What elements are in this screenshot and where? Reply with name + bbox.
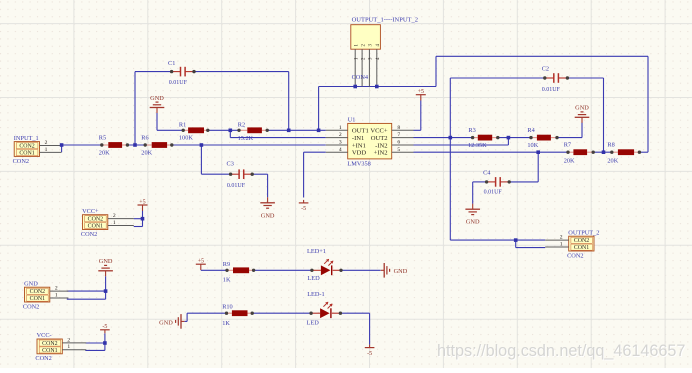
- svg-text:CON2: CON2: [574, 238, 589, 244]
- svg-text:VCC+: VCC+: [82, 208, 99, 215]
- svg-text:CON2: CON2: [42, 341, 57, 347]
- svg-text:GND: GND: [99, 258, 113, 265]
- svg-text:R2: R2: [238, 121, 245, 128]
- resistor R2: [237, 121, 269, 141]
- svg-text:VDD: VDD: [352, 150, 367, 157]
- svg-text:1: 1: [67, 344, 70, 350]
- svg-text:2: 2: [67, 337, 70, 343]
- resistor R9: [223, 261, 256, 284]
- wire +5 to R9: [201, 269, 227, 271]
- svg-text:GND: GND: [24, 280, 38, 287]
- wire R7 to R8: [593, 151, 612, 153]
- capacitor C3: [227, 161, 254, 190]
- wire R1 to R2: [208, 129, 239, 131]
- resistor R4: [527, 127, 558, 149]
- power -5 below VDD: [299, 200, 309, 212]
- wire OUT2 to R3: [414, 137, 473, 139]
- capacitor C4: [483, 170, 511, 196]
- svg-text:U1: U1: [348, 116, 356, 123]
- svg-text:15.2K: 15.2K: [238, 135, 254, 142]
- svg-text:0.01UF: 0.01UF: [542, 87, 561, 93]
- svg-text:CON1: CON1: [88, 224, 103, 230]
- connector GND: [23, 280, 69, 310]
- svg-text:CON2: CON2: [23, 303, 39, 310]
- svg-text:2: 2: [339, 132, 342, 138]
- wire C1 right drop: [288, 72, 290, 131]
- power -5 at VCC-: [100, 324, 110, 333]
- svg-text:20K: 20K: [141, 150, 152, 157]
- resistor R5: [99, 134, 129, 156]
- svg-text:LED: LED: [307, 275, 320, 282]
- wire R4 to GND: [557, 123, 582, 138]
- wire R10 to LED: [252, 312, 311, 314]
- svg-text:CON1: CON1: [30, 296, 45, 302]
- svg-text:R9: R9: [223, 261, 230, 268]
- ground above GND connector: [98, 258, 113, 276]
- svg-text:R7: R7: [564, 142, 571, 149]
- LED D2 LED-1: [307, 291, 343, 327]
- svg-text:CON2: CON2: [13, 158, 29, 165]
- svg-text:-5: -5: [367, 351, 372, 357]
- svg-text:OUT1: OUT1: [352, 128, 369, 135]
- wire OUT1 riser to CON4: [318, 87, 320, 131]
- svg-text:CON2: CON2: [19, 144, 34, 150]
- svg-text:-IN2: -IN2: [375, 142, 387, 149]
- svg-text:0.01UF: 0.01UF: [169, 80, 188, 86]
- svg-text:R6: R6: [141, 134, 148, 141]
- wire C2 left net: [450, 77, 545, 79]
- svg-text:INPUT_1: INPUT_1: [14, 135, 39, 142]
- svg-text:C3: C3: [227, 161, 234, 168]
- svg-text:R5: R5: [99, 134, 106, 141]
- op-amp U1 LMV358: [326, 116, 414, 167]
- svg-text:20K: 20K: [564, 157, 575, 164]
- resistor R10: [222, 304, 254, 327]
- ground right of LED=1: [381, 263, 408, 278]
- power +5 above VCC+: [138, 199, 148, 210]
- svg-text:CON2: CON2: [30, 289, 45, 295]
- ground near C3: [260, 197, 275, 219]
- svg-text:8: 8: [397, 125, 400, 131]
- svg-text:2: 2: [560, 235, 563, 241]
- svg-text:1: 1: [45, 147, 48, 153]
- svg-text:C4: C4: [483, 170, 491, 177]
- svg-text:OUTPUT_2: OUTPUT_2: [568, 229, 599, 236]
- svg-text:6: 6: [397, 140, 400, 146]
- svg-text:LED-1: LED-1: [307, 291, 325, 298]
- wire C2 right drop: [603, 78, 605, 152]
- svg-text:CON2: CON2: [81, 231, 97, 238]
- svg-text:R3: R3: [468, 127, 475, 134]
- wire R9 to LED: [254, 269, 312, 271]
- connector OUTPUT_2: [545, 229, 599, 259]
- svg-text:2: 2: [113, 213, 116, 219]
- svg-text:3: 3: [339, 140, 342, 146]
- svg-text:1: 1: [339, 125, 342, 131]
- ground near C4: [465, 204, 480, 226]
- capacitor C2: [542, 66, 569, 93]
- wire R2 to U1 pin1: [267, 129, 326, 131]
- wire input to R5: [62, 144, 102, 146]
- svg-text:4: 4: [339, 147, 342, 153]
- svg-text:12.35K: 12.35K: [468, 142, 487, 149]
- svg-text:GND: GND: [159, 319, 173, 326]
- LED D1 LED+1: [307, 248, 343, 282]
- capacitor C1: [168, 60, 196, 86]
- svg-text:GND: GND: [466, 219, 480, 226]
- connector VCC-: [35, 332, 86, 362]
- power +5 left of R9: [196, 259, 206, 270]
- svg-text:OUT2: OUT2: [371, 135, 388, 142]
- ground left of R10: [159, 314, 184, 329]
- svg-text:10K: 10K: [527, 142, 538, 149]
- svg-text:-IN1: -IN1: [352, 135, 364, 142]
- svg-text:2: 2: [55, 286, 58, 292]
- svg-text:7: 7: [397, 132, 400, 138]
- svg-text:CON1: CON1: [42, 348, 57, 354]
- power +5 above U1: [416, 89, 426, 100]
- ground near R1: [150, 95, 165, 113]
- wire feedback drop to -IN1: [230, 130, 325, 137]
- svg-text:CON2: CON2: [567, 252, 583, 259]
- svg-text:1K: 1K: [222, 320, 230, 327]
- svg-text:CON4: CON4: [352, 74, 369, 81]
- resistor R1: [179, 121, 210, 141]
- svg-text:GND: GND: [394, 268, 408, 275]
- power -5 below LED-1: [365, 345, 375, 357]
- svg-text:R1: R1: [179, 121, 186, 128]
- wire R6 to U1 pin3: [172, 144, 326, 146]
- svg-text:CON2: CON2: [35, 355, 51, 362]
- svg-text:1: 1: [560, 241, 563, 247]
- svg-text:https://blog.csdn.net/qq_46146: https://blog.csdn.net/qq_46146657: [437, 342, 685, 360]
- wire C1 left lead net: [135, 71, 172, 73]
- watermark: [437, 342, 686, 361]
- svg-text:C1: C1: [168, 60, 175, 67]
- svg-text:CON1: CON1: [19, 151, 34, 157]
- svg-text:0.01UF: 0.01UF: [227, 183, 246, 189]
- wire C4 to GND: [473, 182, 487, 204]
- wire C3 to GND: [252, 174, 267, 197]
- wire C4 net: [509, 152, 538, 182]
- svg-text:GND: GND: [150, 95, 164, 102]
- svg-text:0.01UF: 0.01UF: [484, 190, 503, 196]
- wire GND to R10: [185, 313, 227, 321]
- svg-text:100K: 100K: [179, 134, 193, 141]
- svg-text:1: 1: [113, 220, 116, 226]
- wire GND connector net: [67, 276, 106, 299]
- wire CON4 bottom bus: [319, 86, 436, 88]
- svg-text:GND: GND: [575, 105, 589, 112]
- svg-text:LMV358: LMV358: [347, 160, 370, 167]
- wire VDD to -5: [304, 152, 326, 197]
- wire top bus to R8: [436, 56, 648, 152]
- svg-text:OUTPUT_1----INPUT_2: OUTPUT_1----INPUT_2: [352, 16, 418, 23]
- wire INPUT_1 tie vertical: [61, 145, 63, 152]
- svg-text:5: 5: [397, 147, 400, 153]
- svg-text:CON1: CON1: [574, 245, 589, 251]
- wire C2 right net: [567, 77, 603, 79]
- svg-text:+IN1: +IN1: [352, 142, 366, 149]
- ground near R4: [575, 105, 590, 123]
- wire R3R4 node to -IN2: [414, 138, 509, 145]
- wire OUT2 vertical to OUTPUT_2: [450, 78, 545, 240]
- svg-text:2: 2: [45, 140, 48, 146]
- svg-text:VCC+: VCC+: [370, 128, 388, 135]
- resistor R8: [607, 142, 641, 165]
- wire VCC- to -5: [85, 333, 105, 350]
- svg-text:R8: R8: [607, 142, 614, 149]
- resistor R6: [141, 134, 173, 156]
- wire R3 to R4: [498, 137, 531, 139]
- svg-text:CON2: CON2: [88, 217, 103, 223]
- svg-text:1: 1: [55, 292, 58, 298]
- wire LED to -5: [340, 313, 369, 344]
- svg-text:VCC-: VCC-: [37, 332, 52, 339]
- svg-text:LED+1: LED+1: [307, 248, 326, 255]
- wire C1 right lead net: [194, 71, 289, 73]
- svg-text:GND: GND: [261, 212, 275, 219]
- svg-text:R10: R10: [222, 304, 233, 311]
- wire GND to R1: [157, 113, 183, 130]
- wire C1 left drop: [134, 72, 136, 145]
- svg-text:20K: 20K: [99, 150, 110, 157]
- svg-text:-5: -5: [301, 206, 306, 212]
- svg-text:+IN2: +IN2: [374, 150, 388, 157]
- wire CON4 riser right: [435, 56, 437, 86]
- wire R5 to R6: [127, 144, 145, 146]
- svg-text:20K: 20K: [607, 157, 618, 164]
- wire VCC+ to +5: [134, 211, 143, 227]
- svg-text:R4: R4: [527, 127, 535, 134]
- wire C3 drop: [201, 145, 230, 174]
- wire LED to GND right: [341, 269, 381, 271]
- svg-text:LED: LED: [307, 319, 320, 326]
- svg-text:C2: C2: [542, 66, 549, 73]
- svg-text:1K: 1K: [223, 276, 231, 283]
- resistor R7: [564, 142, 595, 165]
- resistor R3: [468, 127, 499, 149]
- wire +5 to U1 pin8: [414, 101, 421, 131]
- connector VCC+: [81, 208, 134, 238]
- wire +IN2 bus: [414, 151, 569, 153]
- connector INPUT_1: [13, 135, 62, 165]
- wire OUTPUT_2 pin1 link: [516, 240, 546, 248]
